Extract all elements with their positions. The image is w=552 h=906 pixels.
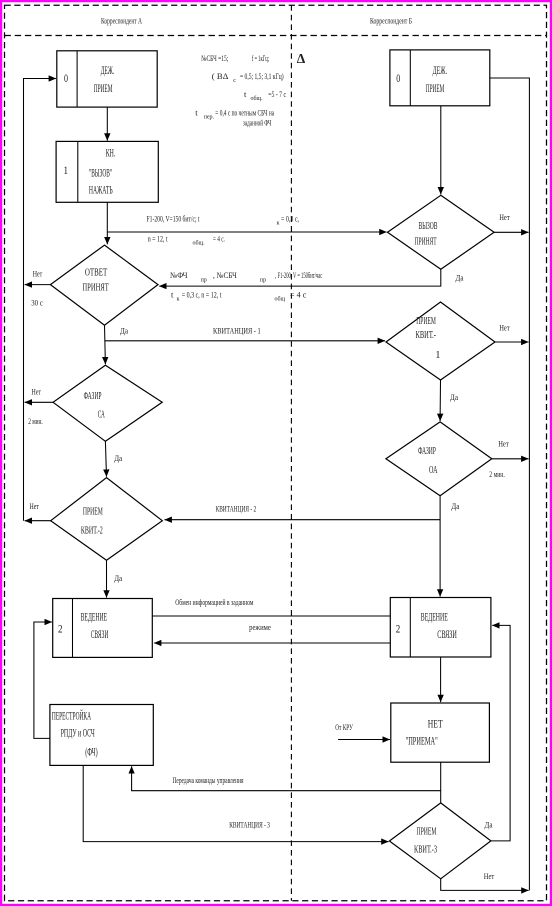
delta symbol (297, 51, 306, 66)
svg-text:=5 - 7 с: =5 - 7 с (268, 89, 286, 99)
svg-text:f = 1кГц;: f = 1кГц; (252, 53, 269, 63)
svg-text:Да: Да (451, 501, 459, 511)
diamond ОТВЕТ ПРИНЯТ (50, 245, 158, 325)
diamond ПРИЕМ КВИТ-3 (389, 803, 491, 879)
svg-text:ВЫЗОВ: ВЫЗОВ (419, 221, 438, 232)
svg-text:ДЕЖ.: ДЕЖ. (433, 63, 448, 77)
note №ФЧ answer parameters line2 (171, 289, 307, 302)
wire КВИТАНЦИЯ-2 branch to ПРИЕМ КВИТ-2 (165, 519, 441, 521)
diamond ФАЗИР СА (53, 365, 162, 441)
svg-text:ПРИНЯТ: ПРИНЯТ (415, 236, 438, 247)
svg-text:"ПРИЕМА": "ПРИЕМА" (406, 733, 438, 747)
svg-text:ОТВЕТ: ОТВЕТ (85, 267, 108, 278)
label КВИТАНЦИЯ - 2 (216, 504, 257, 514)
label 2 мин ФАЗИР СА (28, 416, 43, 426)
wire box B1 right feedback vertical (490, 78, 530, 890)
label КВИТАНЦИЯ - 1 (213, 326, 261, 336)
svg-text:Да: Да (114, 453, 122, 463)
svg-text:ПРИЕМ: ПРИЕМ (94, 81, 113, 95)
svg-text:заданной ФЧ: заданной ФЧ (243, 118, 272, 128)
svg-text:n = 12, t: n = 12, t (148, 233, 168, 243)
svg-text:= 0,4 с по четным СБЧ на: = 0,4 с по четным СБЧ на (215, 108, 274, 118)
central divider dashed line (290, 5, 292, 901)
box A ВЕДЕНИЕ СВЯЗИ (2) (53, 599, 153, 658)
svg-text:№СБЧ =15;: №СБЧ =15; (201, 53, 228, 63)
svg-text:ПЕРЕСТРОЙКА: ПЕРЕСТРОЙКА (52, 709, 91, 723)
svg-text:1: 1 (64, 165, 69, 177)
header label Корреспондент Б (370, 16, 412, 26)
svg-text:общ.: общ. (251, 95, 264, 102)
diamond ПРИЕМ КВИТ-2 (51, 478, 163, 561)
svg-text:НАЖАТЬ: НАЖАТЬ (89, 183, 113, 197)
svg-text:пр: пр (201, 278, 207, 284)
svg-text:ВЕДЕНИЕ: ВЕДЕНИЕ (421, 609, 448, 623)
note №СБЧ f parameters (195, 53, 286, 128)
svg-text:№ФЧ: №ФЧ (170, 270, 188, 280)
wire ПРИЕМ КВИТ-1 Нет to right line (495, 341, 529, 343)
note №ФЧ answer parameters line1 (170, 270, 322, 284)
svg-text:режиме: режиме (249, 622, 271, 632)
label Да ВЫЗОВ ПРИНЯТ (456, 273, 464, 283)
wire ПРИЕМ КВИТ-1 Да to ФАЗИР ОА (439, 380, 441, 421)
svg-text:общ: общ (275, 295, 286, 302)
wire box A2 down to ОТВЕТ ПРИНЯТ (106, 202, 108, 244)
svg-text:( ВΔ: ( ВΔ (212, 71, 229, 81)
label Да ФАЗИР ОА (451, 501, 459, 511)
box НЕТ ПРИЕМА (391, 703, 490, 762)
svg-text:Да: Да (456, 273, 464, 283)
svg-text:общ.: общ. (193, 239, 206, 246)
svg-text:2: 2 (58, 624, 63, 636)
header separator dashed line (5, 35, 547, 37)
svg-text:"ВЫЗОВ": "ВЫЗОВ" (89, 165, 112, 179)
label Да ПРИЕМ КВИТ-2 (114, 573, 122, 583)
svg-text:30 с: 30 с (31, 298, 43, 308)
wire box A1 to box A2 (106, 107, 108, 141)
svg-text:Нет: Нет (499, 212, 510, 222)
note F1-200 call parameters line2 (148, 233, 225, 246)
box ПЕРЕСТРОЙКА РПДУ и ОСЧ (ФЧ) (50, 705, 153, 766)
svg-text:пер.: пер. (204, 115, 215, 121)
svg-text:ДЕЖ.: ДЕЖ. (101, 63, 114, 77)
wire box B down to НЕТ ПРИЕМА (440, 657, 442, 702)
wire ФАЗИР ОА Да down to box B ВЕДЕНИЕ СВЯЗИ (439, 496, 441, 597)
svg-text:Да: Да (120, 326, 128, 336)
box B1 ДЕЖ.ПРИЕМ (0) (390, 50, 490, 106)
diamond ФАЗИР ОА (386, 422, 492, 496)
svg-text:2 мин.: 2 мин. (28, 416, 43, 426)
label Передача команды управления (173, 775, 244, 785)
label Да ОТВЕТ ПРИНЯТ (120, 326, 128, 336)
svg-text:Корреспондент Б: Корреспондент Б (370, 16, 412, 26)
wire НЕТ ПРИЕМА down to ПРИЕМ КВИТ-3 (440, 762, 442, 803)
box B ВЕДЕНИЕ СВЯЗИ (2) (390, 598, 491, 658)
svg-text:F1-200, V=150 бит/с; t: F1-200, V=150 бит/с; t (147, 214, 200, 224)
svg-text:Да: Да (114, 573, 122, 583)
svg-text:ПРИЕМ: ПРИЕМ (417, 827, 437, 838)
label Нет ОТВЕТ ПРИНЯТ (33, 269, 43, 279)
svg-text:КВИТАНЦИЯ - 1: КВИТАНЦИЯ - 1 (213, 326, 261, 336)
wire обмен информацией line B to A (154, 642, 390, 644)
diamond ВЫЗОВ ПРИНЯТ (388, 195, 495, 269)
svg-text:= 0,3 с, n = 12, t: = 0,3 с, n = 12, t (182, 289, 222, 299)
svg-text:ВЕДЕНИЕ: ВЕДЕНИЕ (81, 609, 108, 623)
box A1 ДЕЖ.ПРИЕМ (0) (57, 51, 157, 107)
label Нет ПРИЕМ КВИТ-1 (499, 323, 510, 333)
svg-text:ФАЗИР: ФАЗИР (84, 391, 102, 402)
label Нет ПРИЕМ КВИТ-2 (30, 501, 40, 511)
note F1-200 call parameters line1 (147, 214, 300, 227)
wire ПРИЕМ КВИТ-3 Да feedback to box B (491, 625, 510, 841)
wire От КРУ into НЕТ ПРИЕМА (338, 739, 390, 741)
svg-text:= 0,3 с,: = 0,3 с, (281, 214, 299, 224)
svg-text:Δ: Δ (297, 51, 306, 66)
svg-text:ПРИЕМ: ПРИЕМ (83, 507, 103, 518)
svg-text:0: 0 (396, 73, 400, 85)
svg-text:Корреспондент А: Корреспондент А (101, 16, 143, 26)
diamond ПРИЕМ КВИТ-1 (386, 302, 495, 380)
wire КВИТАНЦИЯ-3 to ПРИЕМ КВИТ-3 (83, 765, 388, 841)
label Нет ФАЗИР СА (32, 387, 42, 397)
svg-text:ПРИНЯТ: ПРИНЯТ (82, 283, 109, 294)
wire обмен информацией line A to B (152, 615, 390, 617)
label КВИТАНЦИЯ - 3 (229, 820, 270, 830)
svg-text:ФАЗИР: ФАЗИР (418, 446, 436, 457)
svg-text:с: с (233, 78, 236, 84)
wire ОТВЕТ ПРИНЯТ Да down to ФАЗИР СА (104, 325, 107, 364)
svg-text:ПРИЕМ: ПРИЕМ (416, 316, 436, 327)
label 30 с (31, 298, 43, 308)
svg-text:Обмен информацией в заданном: Обмен информацией в заданном (175, 597, 254, 607)
label 2 мин ФАЗИР ОА (489, 469, 505, 479)
svg-text:КВИТАНЦИЯ - 2: КВИТАНЦИЯ - 2 (216, 504, 257, 514)
wire ВЫЗОВ ПРИНЯТ Нет to right line (494, 231, 528, 233)
svg-text:НЕТ: НЕТ (428, 716, 443, 730)
wire ПЕРЕСТРОЙКА up to box A ВЕДЕНИЕ СВЯЗИ (34, 622, 52, 738)
wire ФАЗИР СА Да down to ПРИЕМ КВИТ-2 (105, 441, 106, 476)
svg-text:к: к (277, 221, 280, 227)
svg-text:, F1-200, V = 150бит/час: , F1-200, V = 150бит/час (275, 270, 322, 280)
svg-text:Нет: Нет (33, 269, 43, 279)
svg-text:КН.: КН. (106, 146, 116, 160)
svg-text:(ФЧ): (ФЧ) (85, 744, 98, 758)
label От КРУ (335, 722, 353, 732)
wire left feedback line into box A1 (24, 79, 57, 521)
svg-text:КВИТ.-2: КВИТ.-2 (81, 525, 103, 536)
svg-text:ПРИЕМ: ПРИЕМ (426, 81, 445, 95)
svg-text:Нет: Нет (484, 871, 495, 881)
svg-text:СВЯЗИ: СВЯЗИ (437, 627, 457, 641)
label Нет ФАЗИР ОА (498, 439, 509, 449)
wire ПРИЕМ КВИТ-3 Нет to right line (441, 879, 529, 891)
box A2 КН.ВЫЗОВ НАЖАТЬ (1) (56, 141, 158, 202)
header label Корреспондент А (101, 16, 143, 26)
svg-text:= 0,5; 1,5; 3,1 кГц): = 0,5; 1,5; 3,1 кГц) (240, 71, 284, 81)
label Нет ПРИЕМ КВИТ-3 (484, 871, 495, 881)
svg-text:Нет: Нет (499, 323, 510, 333)
svg-text:Нет: Нет (32, 387, 42, 397)
wire Передача команды управления to ПЕРЕСТРОЙКА (132, 766, 441, 790)
label Нет ВЫЗОВ ПРИНЯТ (499, 212, 510, 222)
wire КВИТАНЦИЯ-1 branch to ПРИЕМ КВИТ-1 (105, 340, 385, 342)
svg-text:2: 2 (396, 624, 401, 636)
svg-text:, №СБЧ: , №СБЧ (213, 270, 237, 280)
svg-text:КВИТАНЦИЯ - 3: КВИТАНЦИЯ - 3 (229, 820, 270, 830)
svg-text:Да: Да (485, 820, 493, 830)
svg-text:2 мин.: 2 мин. (489, 469, 505, 479)
svg-text:Передача команды управления: Передача команды управления (173, 775, 244, 785)
svg-text:Да: Да (450, 392, 458, 402)
label Да ПРИЕМ КВИТ-3 (485, 820, 493, 830)
svg-text:РПДУ и ОСЧ: РПДУ и ОСЧ (61, 725, 95, 739)
wire call branch to ВЫЗОВ ПРИНЯТ (107, 231, 386, 233)
svg-text:КВИТ.-3: КВИТ.-3 (414, 845, 437, 856)
wire ФАЗИР ОА Нет to right line (492, 458, 529, 460)
svg-text:0: 0 (64, 73, 68, 85)
wire ОТВЕТ ПРИНЯТ Нет to left line (25, 284, 51, 286)
svg-text:СА: СА (98, 410, 105, 421)
svg-text:1: 1 (435, 350, 440, 361)
svg-text:к: к (177, 296, 180, 302)
label Да ПРИЕМ КВИТ-1 (450, 392, 458, 402)
label режиме (249, 622, 271, 632)
svg-text:= 4 с.: = 4 с. (213, 233, 225, 243)
wire ПРИЕМ КВИТ-2 Да down to box A ВЕДЕНИЕ СВЯЗИ (106, 560, 108, 597)
svg-text:Нет: Нет (498, 439, 509, 449)
svg-text:КВИТ.-: КВИТ.- (416, 330, 437, 341)
svg-text:= 4 с: = 4 с (290, 289, 307, 299)
svg-text:От КРУ: От КРУ (335, 722, 353, 732)
wire ФАЗИР СА Нет to left line (25, 401, 53, 403)
svg-text:СВЯЗИ: СВЯЗИ (91, 627, 109, 641)
label Обмен информацией в заданном (175, 597, 254, 607)
wire ПРИЕМ КВИТ-2 Нет to left line (25, 520, 51, 522)
svg-text:пр: пр (260, 278, 266, 284)
wire ВЫЗОВ ПРИНЯТ Да to ОТВЕТ ПРИНЯТ (159, 269, 441, 286)
svg-text:Нет: Нет (30, 501, 40, 511)
label Да ФАЗИР СА (114, 453, 122, 463)
wire box B1 down to ВЫЗОВ ПРИНЯТ (440, 106, 442, 195)
svg-text:ОА: ОА (429, 465, 438, 476)
